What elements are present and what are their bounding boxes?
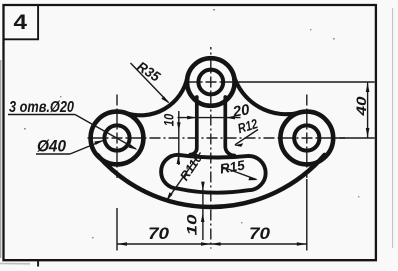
dimension 40 line <box>367 82 369 138</box>
leader arrow Ø40 <box>94 140 104 145</box>
variant number box <box>4 5 39 39</box>
leader R12 <box>235 130 258 145</box>
fillet arc R35 left <box>125 77 187 115</box>
top boss outer circle <box>187 58 235 106</box>
dimension 40 up arrow <box>366 82 370 92</box>
dimension 70 center-left arrow <box>201 242 211 246</box>
scan speckles <box>24 9 359 238</box>
fold tick below frame <box>37 261 39 267</box>
top boss horizontal centerline <box>185 81 240 83</box>
svg-text:Ø40: Ø40 <box>37 137 66 156</box>
dimension 20 left arrow <box>187 116 197 120</box>
top hole Ø20 <box>198 70 223 95</box>
dimension 10 upper line <box>178 111 180 165</box>
svg-text:10: 10 <box>185 214 200 236</box>
svg-text:70: 70 <box>148 225 170 243</box>
leader arrow R35 <box>161 96 169 103</box>
leader arrow R110 <box>166 192 172 201</box>
dimension 10 lower up-arrow <box>201 213 205 222</box>
underline of Ø40 <box>36 153 70 155</box>
scan smudge bottom-left <box>0 263 30 265</box>
dimension 20 right arrow <box>225 116 235 120</box>
dimension 70 center-right arrow <box>211 242 221 246</box>
dimension 10 lower line <box>202 183 204 241</box>
right hole Ø20 <box>294 125 319 150</box>
dimension 40 down arrow <box>366 128 370 138</box>
leader arrow Ø20 <box>128 144 137 150</box>
extension line top hole to 40 dim <box>239 81 375 83</box>
vertical axis centerline x=211 <box>210 47 212 249</box>
svg-text:3 отв.Ø20: 3 отв.Ø20 <box>9 99 74 116</box>
left hole Ø20 <box>104 125 129 150</box>
leader R35 <box>131 63 169 103</box>
underline of 3 отв.Ø20 <box>8 114 75 116</box>
dimension 10 lower down-arrow <box>201 182 205 191</box>
fillet arc R35 right <box>234 75 301 114</box>
scan page edge right (gray) <box>392 8 394 248</box>
leader R110 <box>167 153 201 201</box>
dimension 70 right arrow <box>297 242 307 246</box>
leader Ø40 to boss <box>70 141 103 155</box>
svg-text:4: 4 <box>14 11 28 34</box>
dimension 70 line <box>117 243 307 245</box>
leader arrow R12 <box>234 143 243 147</box>
left boss vertical centerline <box>116 92 118 178</box>
neck line right with fillet R12 <box>225 97 234 156</box>
bottom outline arc R110 <box>97 155 324 207</box>
right boss vertical centerline <box>306 92 308 178</box>
dimension 70 left arrow <box>117 242 127 246</box>
dimension 10 upper up-arrow <box>177 155 181 164</box>
leader 3 отв.Ø20 to hole <box>75 115 136 150</box>
horizontal axis centerline y=138 <box>87 137 345 139</box>
svg-text:40: 40 <box>354 96 369 117</box>
extension line right boss to 70 dim <box>306 179 308 251</box>
leader arrow R15 <box>248 177 257 180</box>
svg-text:70: 70 <box>249 225 271 243</box>
left boss outer circle Ø40 <box>91 112 144 165</box>
dimension 20 line across neck <box>178 117 241 119</box>
right boss outer circle Ø40 <box>280 112 333 165</box>
svg-text:10: 10 <box>161 114 177 127</box>
leader R15 <box>221 167 257 180</box>
dimension 10 upper down-arrow <box>177 122 181 131</box>
extension line right boss to 40 dim <box>336 137 375 139</box>
scan page edge left (gray) <box>0 60 2 258</box>
extension line left boss to 70 dim <box>116 208 118 251</box>
neck line left with fillet <box>190 97 197 155</box>
slot outline (R15 ends) <box>161 155 266 193</box>
svg-text:R35: R35 <box>134 58 163 85</box>
